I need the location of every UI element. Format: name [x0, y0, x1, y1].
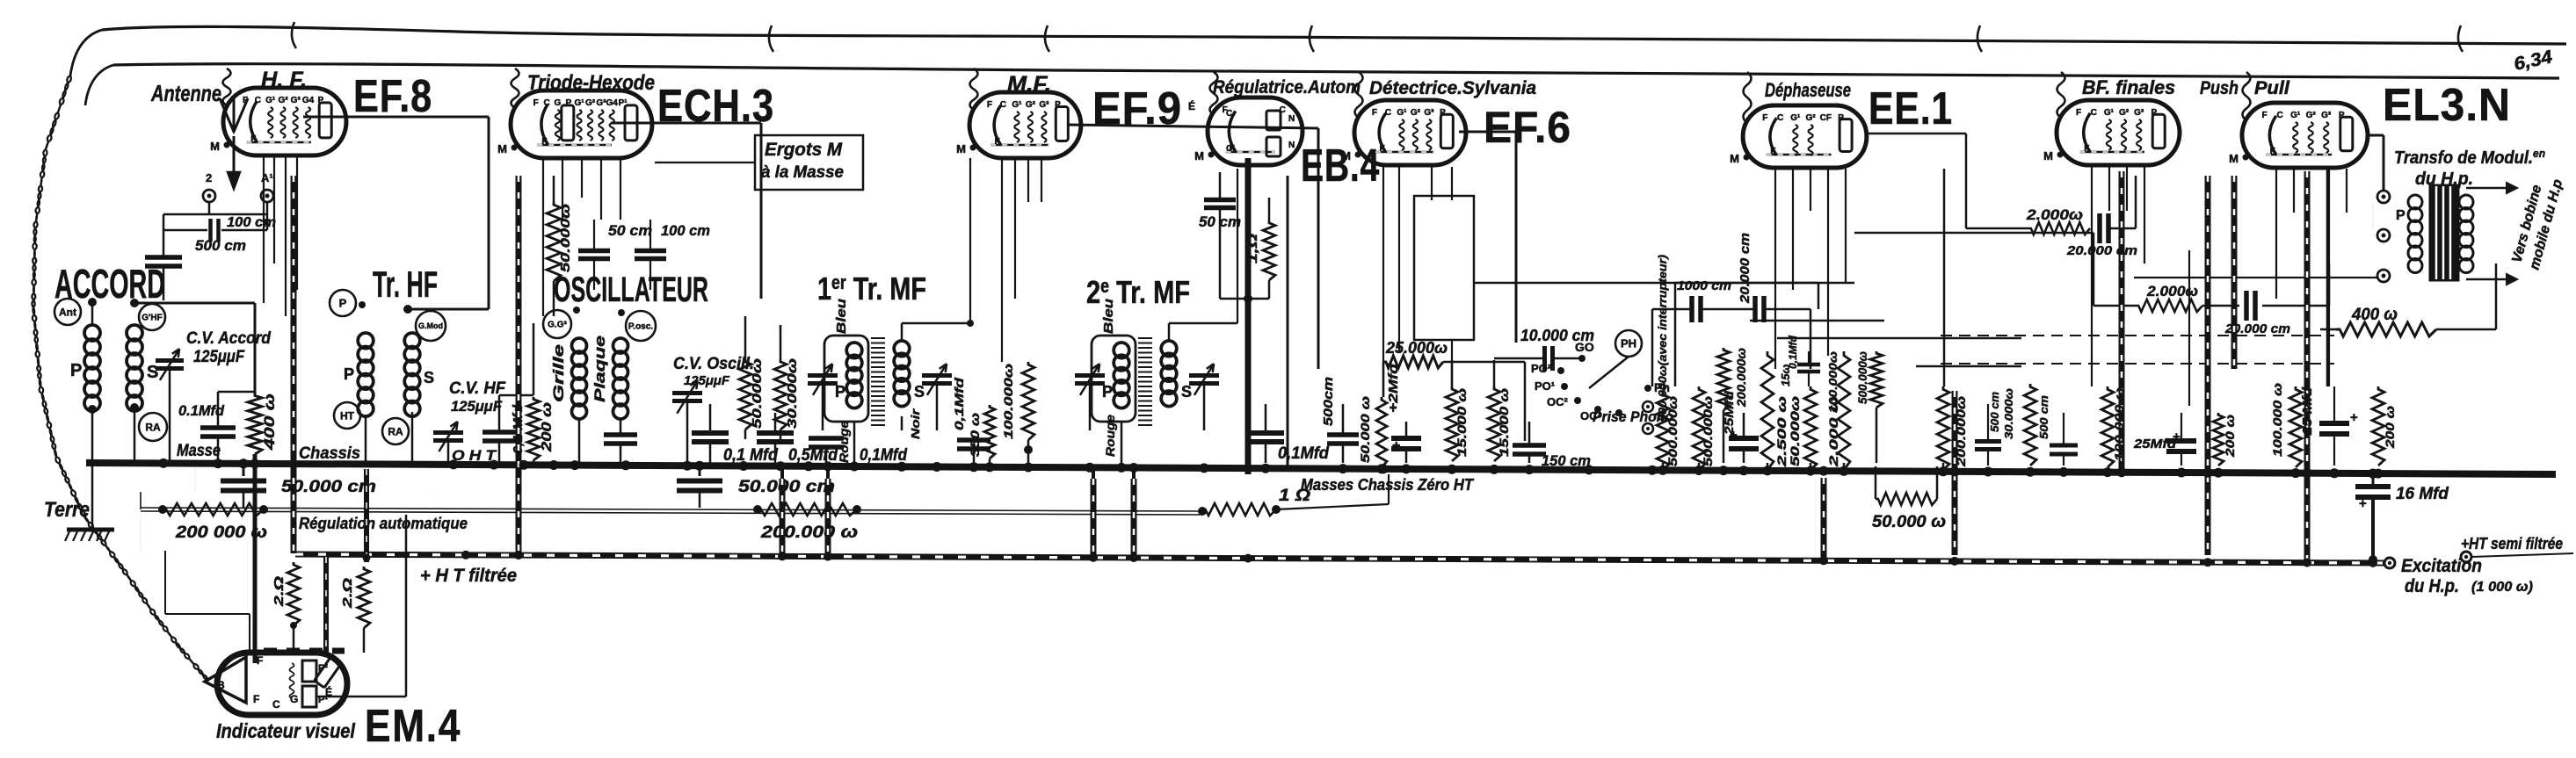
- svg-text:Indicateur visuel: Indicateur visuel: [216, 719, 356, 742]
- svg-text:GO: GO: [1575, 340, 1594, 354]
- svg-text:N: N: [1288, 114, 1295, 124]
- svg-text:G³: G³: [1039, 100, 1049, 110]
- svg-text:+: +: [2359, 496, 2367, 511]
- svg-text:M: M: [2043, 149, 2053, 162]
- svg-text:G³: G³: [2321, 111, 2332, 120]
- svg-text:400 ω: 400 ω: [2351, 306, 2398, 324]
- svg-text:400 ω: 400 ω: [261, 393, 278, 451]
- svg-text:Rouge: Rouge: [1103, 415, 1117, 457]
- svg-text:+: +: [2350, 410, 2358, 425]
- svg-text:C: C: [2091, 108, 2097, 118]
- svg-text:500 cm: 500 cm: [1988, 392, 2001, 432]
- svg-text:G¹: G¹: [265, 96, 276, 105]
- svg-text:EM.4: EM.4: [365, 701, 461, 752]
- svg-text:Régulation automatique: Régulation automatique: [299, 515, 468, 532]
- svg-text:20.000 cm: 20.000 cm: [1738, 233, 1752, 304]
- svg-text:500.000ω: 500.000ω: [1701, 396, 1715, 466]
- svg-text:P: P: [2396, 208, 2405, 223]
- svg-text:Bleu: Bleu: [1101, 299, 1116, 334]
- svg-text:125μμF: 125μμF: [451, 398, 503, 415]
- svg-text:125μμF: 125μμF: [193, 348, 245, 366]
- svg-text:Plaque: Plaque: [591, 336, 608, 402]
- svg-text:EB.4: EB.4: [1301, 141, 1380, 191]
- svg-text:Tr. HF: Tr. HF: [373, 263, 438, 305]
- svg-text:500.000ω: 500.000ω: [1855, 351, 1869, 404]
- svg-text:30.000ω: 30.000ω: [785, 357, 800, 429]
- svg-text:500.000ω: 500.000ω: [1665, 396, 1680, 466]
- svg-text:M: M: [1341, 149, 1351, 162]
- svg-text:100.000 ω: 100.000 ω: [2112, 387, 2126, 461]
- svg-text:C.V. Accord: C.V. Accord: [186, 329, 271, 348]
- svg-text:M: M: [497, 142, 507, 155]
- svg-text:+HT semi filtrée: +HT semi filtrée: [2461, 535, 2563, 552]
- svg-text:P: P: [344, 365, 354, 383]
- svg-text:0,1Mfd: 0,1Mfd: [1787, 335, 1799, 369]
- svg-text:Chassis: Chassis: [299, 444, 360, 463]
- svg-text:M: M: [2229, 152, 2239, 165]
- svg-text:C: C: [1226, 109, 1232, 119]
- svg-text:200 ω: 200 ω: [2383, 406, 2397, 450]
- svg-text:G³: G³: [291, 96, 301, 105]
- svg-text:50.000 ω: 50.000 ω: [1872, 513, 1946, 531]
- svg-text:100 cm: 100 cm: [227, 215, 276, 230]
- svg-text:M.F.: M.F.: [1007, 72, 1051, 97]
- svg-text:RA: RA: [388, 425, 403, 437]
- svg-text:S: S: [147, 363, 158, 382]
- svg-text:500cm: 500cm: [1321, 377, 1336, 426]
- svg-text:500 cm: 500 cm: [2037, 395, 2050, 439]
- svg-text:200 ω: 200 ω: [2223, 415, 2237, 458]
- svg-text:PH: PH: [1621, 337, 1636, 350]
- svg-text:RA: RA: [145, 421, 161, 433]
- svg-text:+: +: [1392, 438, 1400, 453]
- svg-text:EF.8: EF.8: [353, 71, 432, 122]
- svg-text:G¹: G¹: [1790, 113, 1801, 123]
- svg-text:20.000 cm: 20.000 cm: [2066, 243, 2137, 258]
- svg-text:EF.6: EF.6: [1484, 103, 1571, 152]
- svg-text:P: P: [339, 297, 347, 310]
- svg-text:Détectrice.Sylvania: Détectrice.Sylvania: [1369, 78, 1536, 98]
- svg-text:C: C: [255, 96, 261, 105]
- svg-text:16 Mfd: 16 Mfd: [2396, 485, 2449, 503]
- svg-text:0,1 Mfd: 0,1 Mfd: [723, 446, 778, 465]
- svg-text:2.000ω: 2.000ω: [2146, 283, 2198, 300]
- svg-text:G¹: G¹: [2290, 111, 2301, 120]
- svg-text:BF. finales: BF. finales: [2082, 76, 2175, 98]
- svg-text:EL3.N: EL3.N: [2383, 80, 2511, 131]
- svg-text:C: C: [1226, 144, 1232, 154]
- svg-text:G³: G³: [2134, 108, 2144, 118]
- svg-text:G²: G²: [278, 96, 288, 105]
- svg-text:G¹: G¹: [1012, 100, 1022, 110]
- svg-text:G²: G²: [2306, 111, 2317, 120]
- svg-text:M: M: [1730, 152, 1739, 165]
- svg-text:50.000 cm: 50.000 cm: [738, 478, 835, 496]
- svg-text:F: F: [2076, 108, 2081, 118]
- svg-text:Antenne: Antenne: [150, 80, 221, 106]
- svg-text:15.000 ω: 15.000 ω: [1497, 388, 1511, 457]
- svg-text:PO²: PO²: [1531, 362, 1552, 375]
- svg-text:2.Ω: 2.Ω: [272, 576, 287, 608]
- svg-text:P: P: [70, 361, 82, 380]
- svg-text:2: 2: [206, 171, 212, 184]
- svg-text:0,1Mfd: 0,1Mfd: [952, 377, 966, 430]
- svg-text:G²: G²: [1026, 100, 1036, 110]
- svg-text:0,1Mfd: 0,1Mfd: [1278, 444, 1329, 463]
- svg-text:OSCILLATEUR: OSCILLATEUR: [554, 271, 708, 309]
- svg-text:100.000ω: 100.000ω: [1826, 351, 1839, 413]
- svg-text:P.osc.: P.osc.: [628, 322, 653, 332]
- svg-text:2.000ω: 2.000ω: [2026, 206, 2083, 223]
- svg-text:G²: G²: [585, 98, 596, 108]
- svg-text:25Mfd: 25Mfd: [1722, 390, 1736, 436]
- svg-text:Masses Chassis Zéro HT: Masses Chassis Zéro HT: [1301, 476, 1475, 494]
- svg-text:à la Masse: à la Masse: [761, 163, 844, 182]
- svg-text:50 cm: 50 cm: [608, 222, 652, 239]
- svg-text:Déphaseuse: Déphaseuse: [1765, 79, 1851, 101]
- svg-text:M: M: [1194, 149, 1204, 162]
- svg-text:25 Mfd: 25 Mfd: [2300, 386, 2315, 436]
- svg-text:15.000 ω: 15.000 ω: [1455, 388, 1469, 457]
- svg-text:200.000 ω: 200.000 ω: [760, 523, 858, 542]
- svg-text:G³: G³: [596, 98, 606, 108]
- svg-text:50.000ω: 50.000ω: [1788, 396, 1802, 466]
- svg-text:Ergots M: Ergots M: [765, 140, 842, 160]
- svg-text:OC²: OC²: [1547, 395, 1569, 408]
- svg-text:G³: G³: [1424, 108, 1434, 118]
- svg-text:C: C: [1000, 100, 1006, 110]
- svg-text:M: M: [210, 140, 220, 153]
- svg-text:G¹: G¹: [1397, 108, 1407, 118]
- svg-text:200 ω: 200 ω: [540, 402, 555, 452]
- svg-text:F: F: [2262, 111, 2268, 120]
- svg-text:F: F: [987, 100, 992, 110]
- svg-text:C: C: [2276, 111, 2282, 120]
- svg-text:50.000ω: 50.000ω: [750, 357, 765, 429]
- svg-text:EE.1: EE.1: [1869, 83, 1953, 134]
- svg-text:G²: G²: [1411, 108, 1421, 118]
- svg-text:F: F: [1762, 113, 1767, 123]
- svg-text:+ H T filtrée: + H T filtrée: [420, 566, 517, 586]
- svg-text:du H.p.: du H.p.: [2405, 576, 2459, 596]
- svg-text:C: C: [272, 698, 280, 711]
- svg-text:1000 cm: 1000 cm: [1677, 278, 1731, 293]
- svg-text:G²: G²: [1806, 113, 1817, 123]
- svg-text:F: F: [253, 693, 259, 705]
- svg-text:25.000ω: 25.000ω: [1385, 339, 1448, 357]
- svg-text:C: C: [543, 98, 549, 108]
- svg-text:O H T: O H T: [452, 447, 497, 464]
- svg-text:100 cm: 100 cm: [661, 222, 710, 239]
- svg-text:500 cm: 500 cm: [195, 237, 246, 254]
- svg-text:30.000ω: 30.000ω: [2002, 388, 2015, 439]
- svg-text:S: S: [424, 369, 434, 386]
- svg-text:C: C: [1777, 113, 1783, 123]
- svg-text:(1 000 ω): (1 000 ω): [2471, 580, 2533, 595]
- svg-text:F: F: [533, 98, 539, 108]
- svg-text:G²: G²: [2119, 108, 2130, 118]
- svg-text:+2Mfd: +2Mfd: [1386, 363, 1401, 413]
- svg-text:100.000 ω: 100.000 ω: [2270, 383, 2284, 457]
- svg-text:G'HF: G'HF: [141, 314, 163, 323]
- svg-text:G4: G4: [302, 96, 315, 105]
- svg-text:125μμF: 125μμF: [684, 373, 730, 388]
- svg-text:N: N: [1288, 141, 1295, 150]
- svg-text:Régulatrice.Autom: Régulatrice.Autom: [1213, 77, 1361, 97]
- svg-text:G¹: G¹: [575, 98, 585, 108]
- svg-text:Pull: Pull: [2254, 78, 2290, 98]
- svg-text:0,1Mfd: 0,1Mfd: [860, 446, 907, 465]
- svg-text:50.000ω: 50.000ω: [558, 203, 573, 272]
- svg-text:Transfo de Modul.en: Transfo de Modul.en: [2394, 147, 2545, 168]
- svg-text:Triode-Hexode: Triode-Hexode: [527, 71, 655, 95]
- svg-text:C.V. HF: C.V. HF: [449, 379, 506, 398]
- svg-text:2.500 ω: 2.500 ω: [1774, 396, 1789, 468]
- svg-text:H. F.: H. F.: [261, 68, 307, 92]
- svg-text:PO¹: PO¹: [1535, 379, 1555, 393]
- svg-text:Grille: Grille: [550, 344, 567, 402]
- svg-text:F: F: [1372, 108, 1377, 118]
- svg-text:G.Mod: G.Mod: [418, 321, 443, 330]
- svg-text:M: M: [956, 142, 966, 155]
- svg-text:Ant: Ant: [59, 306, 76, 318]
- svg-text:50.000 ω: 50.000 ω: [1358, 396, 1372, 463]
- svg-text:Bleu: Bleu: [834, 299, 849, 334]
- svg-text:Noir: Noir: [909, 408, 922, 439]
- svg-text:G4: G4: [606, 98, 619, 108]
- svg-text:100.000ω: 100.000ω: [1001, 364, 1015, 439]
- svg-text:Rouge: Rouge: [837, 421, 851, 463]
- svg-text:G¹: G¹: [2104, 108, 2115, 118]
- svg-text:200.000ω: 200.000ω: [1734, 348, 1748, 408]
- svg-text:Masse: Masse: [177, 442, 221, 460]
- svg-text:150 cm: 150 cm: [1542, 452, 1591, 469]
- svg-text:É: É: [1188, 99, 1195, 112]
- svg-text:G: G: [555, 98, 562, 108]
- svg-text:HT: HT: [340, 409, 355, 422]
- svg-text:C: C: [1385, 108, 1391, 118]
- svg-text:Push: Push: [2200, 78, 2239, 98]
- svg-text:2.Ω: 2.Ω: [340, 578, 355, 610]
- svg-text:G.G³: G.G³: [548, 321, 567, 330]
- svg-text:CF: CF: [1820, 113, 1832, 123]
- svg-text:F: F: [257, 654, 263, 667]
